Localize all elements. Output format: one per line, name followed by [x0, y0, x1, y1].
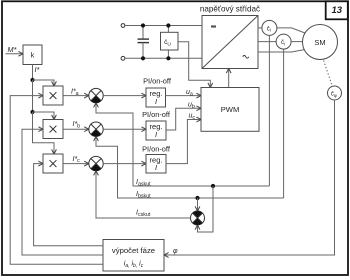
regulator reg1 — [146, 88, 166, 107]
block PWM — [201, 88, 259, 132]
junction — [166, 56, 170, 60]
motor SM — [303, 25, 338, 60]
wire summer1 to reg1 — [103, 93, 146, 98]
wire phase c — [258, 50, 305, 53]
wire či1 drop — [268, 35, 270, 186]
svg-text:M*: M* — [8, 45, 18, 54]
svg-text:PWM: PWM — [221, 105, 240, 114]
capacitor C (DC link) — [138, 26, 150, 59]
wire phase a — [258, 28, 305, 33]
wire ub to PWM — [166, 106, 201, 130]
shaft link (dashed) — [324, 61, 332, 85]
svg-text:výpočet fáze: výpočet fáze — [112, 246, 155, 255]
wire I* vertical — [32, 65, 34, 81]
junction — [30, 110, 34, 114]
junction — [195, 196, 199, 200]
wire ib to multiplier 2 — [22, 127, 103, 255]
svg-text:či: či — [281, 40, 285, 46]
junction — [211, 184, 215, 188]
wire I* to multiplier 3 — [33, 112, 57, 154]
block výpočet fáze — [103, 240, 164, 272]
position sensor čφ — [328, 86, 342, 100]
wire summer3 to reg3 — [103, 161, 146, 166]
regulator reg3 — [146, 155, 166, 174]
inverter U1 (napěťový střídač) — [202, 16, 258, 69]
wire I* vertical 2 — [32, 80, 34, 112]
wire Icskut — [94, 171, 191, 218]
wire top DC rail — [125, 25, 202, 27]
wire to summer top — [195, 198, 200, 211]
DC terminal - — [121, 56, 125, 60]
wire čφ to výpočet fáze — [164, 100, 335, 257]
wire ia to multiplier 1 — [10, 93, 103, 264]
current sensor či1 — [262, 20, 277, 35]
DC terminal + — [121, 24, 125, 28]
figure number 13 — [326, 1, 348, 19]
wire X2 to summer 2 — [63, 127, 89, 132]
svg-text:I: I — [155, 130, 157, 139]
summer S2 — [89, 122, 103, 136]
multiplier X3 — [43, 154, 63, 173]
current sensor či2 — [276, 34, 291, 49]
wire či2 drop — [283, 49, 285, 198]
wire I* to multiplier 1 — [33, 80, 57, 86]
svg-text:čφ: čφ — [331, 92, 337, 98]
wire uc to PWM — [166, 117, 201, 164]
svg-text:I: I — [155, 163, 157, 172]
wire PWM to inverter — [226, 69, 231, 88]
summer S4 (Icskut) — [191, 211, 205, 225]
block k — [23, 45, 42, 65]
multiplier X2 — [43, 120, 63, 139]
wire ic to multiplier 3 — [34, 161, 103, 246]
wire čU to PWM — [178, 42, 213, 88]
regulator reg2 — [146, 121, 166, 140]
wire Iaskut feedback — [94, 103, 270, 186]
svg-text:13: 13 — [332, 5, 343, 16]
junction — [141, 56, 145, 60]
wire X3 to summer 3 — [63, 161, 89, 166]
svg-text:PI/on-off: PI/on-off — [142, 144, 171, 153]
svg-text:napěťový střídač: napěťový střídač — [200, 5, 260, 14]
voltage sensor čU — [161, 26, 179, 59]
wire I* to multiplier 2 — [33, 112, 57, 120]
wire Ibskut feedback — [94, 136, 284, 198]
junction — [141, 23, 145, 27]
svg-text:I: I — [155, 97, 157, 106]
junction — [30, 78, 34, 82]
wire to summer bottom — [195, 186, 213, 232]
summer S1 — [89, 88, 103, 102]
svg-text:PI/on-off: PI/on-off — [143, 77, 172, 86]
wire bottom DC rail — [125, 57, 202, 59]
wire summer2 to reg2 — [103, 127, 146, 132]
wire phase b — [258, 41, 303, 43]
svg-text:φ: φ — [173, 248, 178, 255]
wire ua to PWM — [166, 93, 202, 98]
svg-text:PI/on-off: PI/on-off — [142, 110, 171, 119]
svg-text:SM: SM — [314, 38, 325, 47]
svg-text:či: či — [267, 27, 271, 33]
summer S3 — [89, 156, 103, 170]
wire X1 to summer 1 — [63, 93, 89, 98]
multiplier X1 — [43, 86, 63, 105]
junction — [166, 23, 170, 27]
wire M* input — [6, 51, 24, 56]
svg-text:k: k — [31, 51, 35, 60]
